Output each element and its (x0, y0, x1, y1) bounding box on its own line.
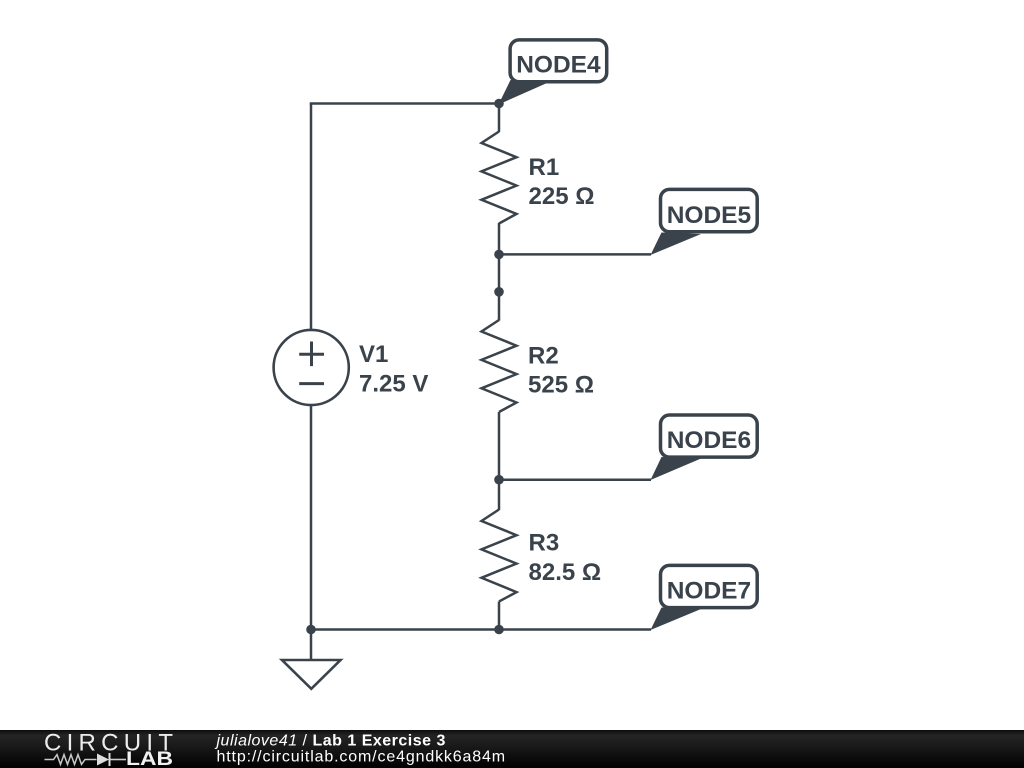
wire: top horizontal from V1 to node4 (310, 102, 499, 105)
node NODE5 callout box (661, 189, 758, 231)
footer url (217, 749, 506, 766)
logo resistor zigzag (45, 755, 97, 765)
resistor R3 (482, 510, 517, 602)
wire: main vertical R1 bottom to R2 top (498, 223, 501, 321)
svg-text:R1: R1 (529, 154, 560, 181)
node NODE7 callout tail (651, 608, 702, 631)
label V1 value 7.25 V (359, 341, 428, 397)
wire: bottom rail (311, 628, 651, 631)
svg-text:525 Ω: 525 Ω (528, 371, 594, 398)
wire: main vertical R3 bottom to bottom rail (498, 602, 501, 630)
label R1 225 Ω (529, 154, 595, 210)
node NODE4 callout tail (499, 80, 552, 105)
voltage source V1 (274, 330, 349, 405)
node NODE6 callout tail (651, 457, 702, 480)
wire: main vertical node4 to R1 top (498, 104, 501, 133)
wire: ground stem (310, 630, 313, 660)
logo CIRCUIT word (44, 730, 173, 757)
svg-text:NODE5: NODE5 (667, 202, 751, 229)
svg-text:R2: R2 (528, 343, 559, 370)
svg-text:julialove41 / Lab 1 Exercise 3: julialove41 / Lab 1 Exercise 3 (215, 733, 446, 750)
svg-text:NODE4: NODE4 (516, 52, 601, 79)
wire: left vertical from V1 bottom terminal to bottom rail (310, 405, 313, 630)
label R3 82.5 Ω (529, 530, 602, 586)
ground (282, 660, 341, 689)
junction dot mid wire (494, 287, 504, 297)
node NODE7 callout box (661, 565, 758, 607)
label R2 525 Ω (528, 343, 594, 399)
svg-text:7.25 V: 7.25 V (359, 371, 428, 398)
resistor R2 (482, 320, 517, 412)
node NODE6 callout box (661, 415, 758, 457)
junction dot node7 (494, 625, 504, 635)
footer bar (0, 730, 1024, 768)
svg-text:V1: V1 (359, 341, 388, 368)
junction dot bottom left (306, 625, 316, 635)
junction dot node4 (494, 99, 504, 109)
svg-text:82.5 Ω: 82.5 Ω (529, 559, 602, 586)
resistor R1 (482, 132, 517, 224)
logo LAB word (126, 749, 173, 768)
node NODE4 callout box (510, 40, 607, 82)
svg-text:NODE6: NODE6 (667, 427, 751, 454)
svg-text:http://circuitlab.com/ce4gndkk: http://circuitlab.com/ce4gndkk6a84m (217, 749, 506, 766)
node NODE5 callout tail (651, 233, 702, 256)
logo diode (97, 753, 126, 766)
wire: node6 horizontal (499, 478, 651, 481)
wire: main vertical R2 bottom to R3 top (498, 412, 501, 510)
footer title julialove41 / Lab 1 Exercise 3 (215, 733, 446, 750)
junction dot node6 (494, 475, 504, 485)
svg-text:NODE7: NODE7 (667, 578, 751, 605)
svg-text:LAB: LAB (126, 749, 173, 768)
junction dot node5 (494, 250, 504, 260)
wire: left vertical from top wire to V1 top terminal (310, 104, 313, 331)
wire: node5 horizontal (499, 253, 651, 256)
svg-text:R3: R3 (529, 530, 560, 557)
svg-text:225 Ω: 225 Ω (529, 183, 595, 210)
